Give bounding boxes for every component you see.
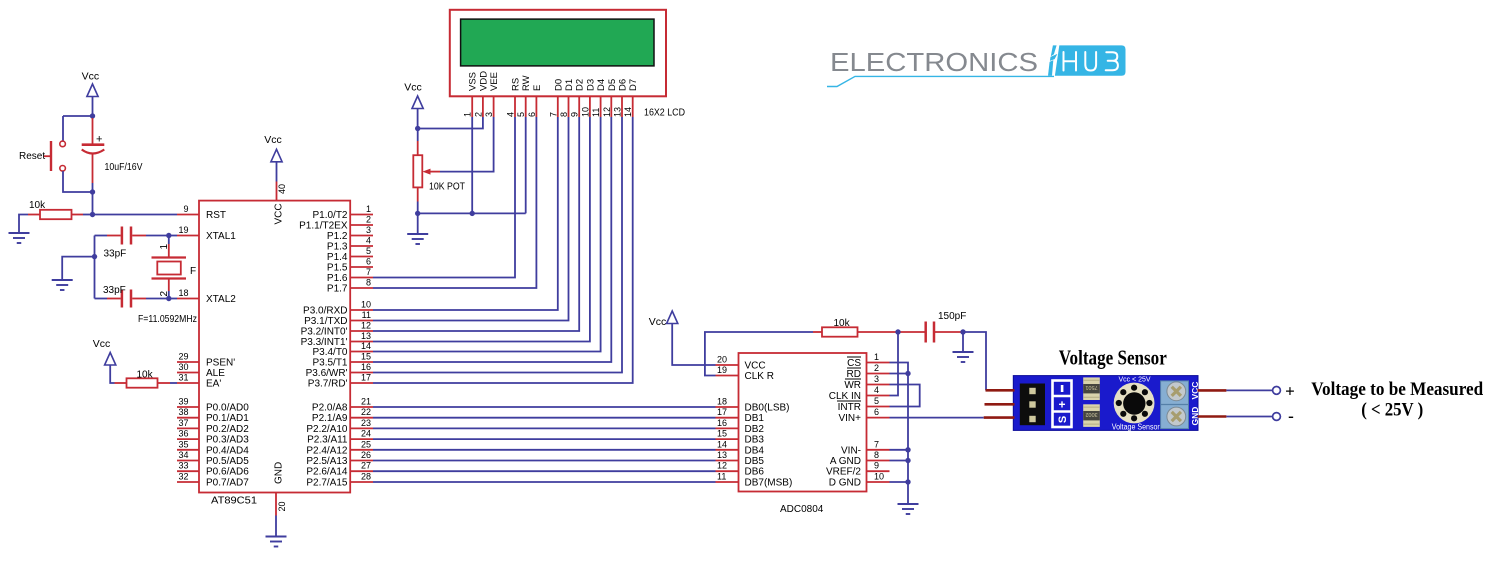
wire XTAL2 node to U1 [169,298,177,300]
svg-text:24: 24 [361,429,371,439]
svg-text:RST: RST [206,210,226,221]
U2 pin 15 DB3 stub [716,429,765,446]
svg-text:36: 36 [178,429,188,439]
svg-text:ELECTRONICS: ELECTRONICS [830,47,1038,77]
sensor right lead GND [1198,415,1227,418]
svg-text:10k: 10k [29,200,46,211]
ground (crystal capacitors) [52,280,73,290]
svg-text:14: 14 [623,107,633,117]
svg-text:18: 18 [178,288,188,298]
svg-text:F=11.0592MHz: F=11.0592MHz [138,314,197,325]
U1 pin 29 PSEN' stub [177,352,235,369]
svg-text:7501: 7501 [1085,384,1097,390]
svg-text:19: 19 [178,225,188,235]
svg-text:AT89C51: AT89C51 [211,496,257,507]
svg-text:13: 13 [613,107,623,117]
wire U2 A GND pin8 to rail [890,460,909,462]
svg-text:S: S [1057,416,1069,423]
svg-text:D1: D1 [564,79,575,91]
svg-text:21: 21 [361,397,371,407]
capacitor C1 10uF/16V electrolytic [82,118,105,183]
svg-text:18: 18 [717,397,727,407]
svg-text:3: 3 [484,112,494,117]
svg-text:A GND: A GND [830,456,861,467]
capacitor C4 150pF [926,322,963,343]
U1 pin 17 P3.7/RD' stub [308,373,373,390]
U1 pin 12 P3.2/INT0' stub [301,321,373,338]
svg-text:13: 13 [717,450,727,460]
svg-text:7: 7 [548,112,558,117]
push button Reset [44,141,65,171]
svg-text:6: 6 [527,112,537,117]
U1 pin 2 P1.1/T2EX stub [299,215,373,232]
U1 pin 10 P3.0/RXD stub [303,300,373,317]
svg-text:RS: RS [511,78,522,91]
svg-text:16: 16 [717,418,727,428]
svg-text:P3.1/TXD: P3.1/TXD [304,316,347,327]
wire D4 (LCD pin11) to U1 P3.4 [373,117,601,352]
svg-text:28: 28 [361,472,371,482]
wire C4 junction to sensor GND pin [963,332,986,390]
wire VDD (LCD pin2) to node C [418,117,483,129]
svg-text:33pF: 33pF [104,249,127,260]
svg-text:P3.0/RXD: P3.0/RXD [303,306,347,317]
wire C4 to ground [962,332,964,352]
svg-text:D6: D6 [618,79,629,91]
svg-text:3002: 3002 [1085,411,1097,417]
U1 pin 32 P0.7/AD7 stub [177,472,249,489]
U2 pin 18 DB0(LSB) stub [716,397,790,414]
LCD pin 7 D0 stub [548,79,564,117]
svg-text:9: 9 [183,204,188,214]
U1 pin 38 P0.1/AD1 stub [177,407,249,424]
U1 pin 23 P2.2/A10 stub [306,418,373,435]
svg-text:P2.7/A15: P2.7/A15 [306,478,348,489]
U2 pin 7 VIN- stub [841,439,890,456]
wire D0 (LCD pin7) to U1 P3.0 [373,117,558,310]
svg-text:DB7(MSB): DB7(MSB) [745,478,793,489]
svg-text:DB6: DB6 [745,467,765,478]
svg-text:P3.2/INT0': P3.2/INT0' [301,327,348,338]
svg-text:VREF/2: VREF/2 [826,467,861,478]
U1 pin 5 P1.4 stub [327,246,373,263]
svg-text:D5: D5 [607,79,618,91]
svg-text:19: 19 [717,365,727,375]
svg-text:14: 14 [717,439,727,449]
svg-text:Vcc: Vcc [404,81,422,93]
wire Vcc to node A [92,97,94,117]
wire reset button bottom to node B [63,171,93,192]
U1 pin 28 P2.7/A15 stub [306,472,373,489]
svg-text:P3.4/T0: P3.4/T0 [312,347,347,358]
U2 pin 12 DB6 stub [716,461,765,478]
svg-text:Voltage to be Measured: Voltage to be Measured [1311,379,1483,400]
svg-text:P1.2: P1.2 [327,231,348,242]
svg-text:CLK IN: CLK IN [829,391,861,402]
U1 VCC pin 40 stub [276,182,278,201]
svg-text:39: 39 [178,397,188,407]
svg-text:26: 26 [361,450,371,460]
LCD pin 8 D1 stub [559,79,575,117]
svg-text:VCC: VCC [745,361,766,372]
wire node A to reset button top [63,115,93,117]
ground (reset resistor) [9,233,30,243]
svg-text:Vcc: Vcc [93,338,111,350]
svg-text:8: 8 [366,278,371,288]
svg-text:8: 8 [559,112,569,117]
svg-text:35: 35 [178,439,188,449]
wire U2 D GND pin10 to rail [890,481,909,483]
svg-text:ADC0804: ADC0804 [780,504,824,515]
U2 pin 11 DB7(MSB) stub [716,472,793,489]
svg-text:12: 12 [602,107,612,117]
sensor 3-pin header (black) [1020,384,1045,426]
U1 pin 1 P1.0/T2 stub [312,204,373,221]
svg-text:P0.4/AD4: P0.4/AD4 [206,445,249,456]
svg-text:34: 34 [178,450,188,460]
svg-text:P2.1/A9: P2.1/A9 [312,413,348,424]
svg-text:P2.2/A10: P2.2/A10 [306,424,348,435]
wire RV1 bottom to ground [417,213,419,234]
wire U2 VIN+ pin6 to sensor S pin [890,417,984,419]
svg-text:30: 30 [178,362,188,372]
svg-text:Vcc: Vcc [264,134,282,146]
svg-text:P1.0/T2: P1.0/T2 [312,210,347,221]
svg-text:DB3: DB3 [745,435,765,446]
svg-text:D GND: D GND [829,478,861,489]
svg-text:11: 11 [717,472,726,482]
LCD pin 14 D7 stub [623,79,639,117]
svg-text:17: 17 [717,407,727,417]
wire D7 (LCD pin14) to U1 P3.7 [373,117,633,383]
ground (C4) [953,352,974,362]
svg-text:P0.1/AD1: P0.1/AD1 [206,413,249,424]
U2 pin 4 CLK IN stub [829,385,890,402]
node capacitor rail junction [92,254,97,259]
wire sensor VCC lead to + terminal [1226,389,1272,391]
LCD pin 2 VDD stub [473,71,489,117]
svg-text:Vcc: Vcc [82,71,100,83]
wire U2 CLK R pin 19 to resistor R4 [705,332,813,376]
svg-text:15: 15 [361,352,371,362]
wire U2 RD pin2 to rail [890,373,909,375]
svg-text:37: 37 [178,418,188,428]
LCD pin 6 E stub [527,85,543,117]
power symbol Vcc (reset circuit) [82,71,100,97]
wire E (LCD pin6) to U1 P1.7 [373,117,536,288]
svg-text:9: 9 [874,461,879,471]
node A junction [90,113,95,118]
svg-text:14: 14 [361,341,371,351]
sensor left lead S (signal) [984,416,1015,419]
svg-text:F: F [190,266,196,277]
op: U2 ADC0804 body [739,353,867,492]
wire U1 P2.7 to U2 DB7 [373,481,716,483]
svg-text:5: 5 [874,396,879,406]
wire D2 (LCD pin9) to U1 P3.2 [373,117,579,331]
U1 pin 8 P1.7 stub [327,278,373,295]
svg-text:P2.0/A8: P2.0/A8 [312,403,348,414]
svg-text:10: 10 [580,107,590,117]
wire Vcc to U2 VCC pin 20 [672,324,715,366]
svg-text:VDD: VDD [478,71,489,91]
wire D6 (LCD pin13) to U1 P3.6 [373,117,622,373]
wire D5 (LCD pin12) to U1 P3.5 [373,117,611,362]
capacitor C3 33pF [95,290,169,308]
svg-text:27: 27 [361,461,371,471]
logo HU3 letters [1064,52,1118,71]
svg-text:6: 6 [366,257,371,267]
svg-text:+: + [1058,397,1065,411]
U1 pin 35 P0.4/AD4 stub [177,439,249,456]
svg-text:15: 15 [717,429,727,439]
sensor trimmer potentiometer [1114,383,1155,424]
svg-text:10uF/16V: 10uF/16V [105,162,143,173]
potentiometer RV1 10K POT [413,129,440,214]
svg-text:4: 4 [366,236,371,246]
U1 pin 19 XTAL1 stub [177,225,236,242]
svg-text:VIN-: VIN- [841,445,861,456]
terminal - (input) [1273,413,1281,421]
LCD pin 11 D4 stub [591,79,607,117]
svg-text:31: 31 [178,373,188,383]
U2 pin 17 DB1 stub [716,407,765,424]
svg-text:16: 16 [361,362,371,372]
U1 pin 39 P0.0/AD0 stub [177,397,249,414]
U1 pin 11 P3.1/TXD stub [304,310,373,327]
U1 pin 26 P2.5/A13 stub [306,450,373,467]
svg-text:10k: 10k [834,318,851,329]
wire Vcc to R3 [110,365,114,383]
wire rail to ground [62,257,94,280]
wire sensor GND lead to - terminal [1226,416,1272,418]
U2 pin 13 DB5 stub [716,450,765,467]
resistor R2 10k (reset pulldown) [28,210,93,219]
U1 pin 36 P0.3/AD3 stub [177,429,249,446]
U2 pin 9 VREF/2 stub [826,461,890,478]
wire RW (LCD pin5) down to ground rail [525,117,527,213]
wire U1 P2.2 to U2 DB2 [373,427,716,429]
U2 pin 16 DB2 stub [716,418,765,435]
svg-text:20: 20 [277,501,287,511]
svg-text:P1.7: P1.7 [327,284,348,295]
svg-text:Reset: Reset [19,151,45,162]
svg-text:7: 7 [874,439,879,449]
svg-text:P1.3: P1.3 [327,242,348,253]
svg-text:DB5: DB5 [745,456,765,467]
svg-text:D2: D2 [575,79,586,91]
U1 pin 22 P2.1/A9 stub [312,407,373,424]
LCD screen (green) [461,19,654,66]
U1 pin 9 RST stub [177,204,226,221]
svg-text:D0: D0 [553,79,564,91]
ground (ADC rail) [898,504,919,514]
power symbol Vcc (ADC) [649,311,678,328]
svg-text:VIN+: VIN+ [838,413,861,424]
svg-text:1: 1 [463,112,473,117]
U1 pin 18 XTAL2 stub [177,288,236,305]
U2 pin 2 RD stub [847,363,890,380]
wire C1 bottom to node B [92,183,94,192]
svg-text:150pF: 150pF [938,311,966,322]
svg-text:P1.6: P1.6 [327,273,348,284]
LCD pin 12 D5 stub [602,79,618,117]
svg-text:2: 2 [366,215,371,225]
svg-text:+: + [96,134,102,146]
wire D1 (LCD pin8) to U1 P3.1 [373,117,569,321]
svg-text:P0.2/AD2: P0.2/AD2 [206,424,249,435]
svg-text:3: 3 [874,374,879,384]
svg-text:P2.4/A12: P2.4/A12 [306,445,348,456]
svg-text:XTAL2: XTAL2 [206,294,236,305]
svg-text:10k: 10k [137,370,154,381]
U2 pin 3 WR stub [844,374,889,391]
svg-text:P3.7/RD': P3.7/RD' [308,379,348,390]
power symbol Vcc (EA pin) [93,338,116,365]
U1 pin 3 P1.2 stub [327,225,373,242]
svg-text:2: 2 [874,363,879,373]
U1 pin 16 P3.6/WR' stub [306,362,373,379]
svg-text:2: 2 [473,112,483,117]
svg-text:6: 6 [874,407,879,417]
svg-text:2: 2 [159,291,170,297]
svg-text:8: 8 [874,450,879,460]
U2 pin 14 DB4 stub [716,439,765,456]
svg-text:3: 3 [366,225,371,235]
LCD module LCD1 body (16X2 LCD) [450,10,666,97]
svg-text:33: 33 [178,461,188,471]
svg-text:4: 4 [874,385,879,395]
svg-text:11: 11 [362,310,371,320]
wire VSS (LCD pin1) down to ground rail [471,117,473,213]
LCD pin 10 D3 stub [580,79,596,117]
svg-text:P1.1/T2EX: P1.1/T2EX [299,221,348,232]
svg-text:P0.3/AD3: P0.3/AD3 [206,435,249,446]
node RV1 bottom junction [415,211,420,216]
svg-text:P0.0/AD0: P0.0/AD0 [206,403,249,414]
sensor SMD resistor 7501 [1083,377,1100,400]
svg-text:+: + [1285,382,1295,401]
svg-text:( < 25V ): ( < 25V ) [1361,400,1423,421]
svg-text:10: 10 [874,472,884,482]
U2 pin 19 CLK R stub [716,365,774,382]
svg-text:XTAL1: XTAL1 [206,231,236,242]
U1 pin 30 ALE stub [177,362,225,379]
svg-text:DB0(LSB): DB0(LSB) [745,403,790,414]
svg-text:P0.6/AD6: P0.6/AD6 [206,467,249,478]
svg-text:CS: CS [847,358,861,369]
svg-text:4: 4 [506,112,516,117]
svg-text:10K POT: 10K POT [429,182,465,193]
svg-text:P1.5: P1.5 [327,263,348,274]
logo HUB blue box [1048,45,1126,75]
svg-text:11: 11 [591,108,601,117]
node C4 right junction [960,329,965,334]
node RD junction [905,371,910,376]
svg-text:33pF: 33pF [103,285,126,296]
U1 pin 33 P0.6/AD6 stub [177,461,249,478]
node XTAL2 junction [166,296,171,301]
LCD pin 13 D6 stub [613,79,629,117]
svg-text:PSEN': PSEN' [206,358,235,369]
svg-text:12: 12 [361,321,371,331]
svg-text:DB1: DB1 [745,413,765,424]
svg-text:1: 1 [366,204,371,214]
svg-text:DB2: DB2 [745,424,765,435]
svg-text:P3.6/WR': P3.6/WR' [306,368,348,379]
U2 pin 1 CS stub [847,352,890,369]
capacitor C2 33pF [95,227,169,245]
wire U1 P2.3 to U2 DB3 [373,438,716,440]
U1 pin 24 P2.3/A11 stub [307,429,373,446]
svg-text:38: 38 [178,407,188,417]
svg-text:P0.5/AD5: P0.5/AD5 [206,456,249,467]
terminal + (input) [1273,387,1281,395]
wire U1 P2.0 to U2 DB0 [373,406,716,408]
U1 pin 37 P0.2/AD2 stub [177,418,249,435]
svg-text:VEE: VEE [489,72,500,91]
svg-text:25: 25 [361,439,371,449]
svg-text:17: 17 [361,373,371,383]
LCD pin 3 VEE stub [484,72,500,117]
sensor screw terminal block [1161,381,1189,429]
svg-text:P0.7/AD7: P0.7/AD7 [206,478,249,489]
svg-text:7: 7 [366,267,371,277]
svg-text:16X2 LCD: 16X2 LCD [644,108,685,119]
svg-text:RW: RW [521,75,532,91]
svg-text:40: 40 [277,184,287,194]
svg-text:INTR: INTR [838,402,861,413]
sensor right lead VCC [1198,389,1227,392]
svg-text:9: 9 [570,112,580,117]
svg-text:5: 5 [516,112,526,117]
wire RST node to U1 RST pin [93,214,178,216]
svg-text:1: 1 [159,244,170,250]
wire U2 CS pin1 to vertical rail [890,363,909,505]
ground (LCD/pot) [407,234,428,244]
wire U2 VIN- pin7 to rail [890,449,909,451]
U1 pin 14 P3.4/T0 stub [312,341,373,358]
svg-text:EA': EA' [206,379,221,390]
svg-text:Voltage Sensor: Voltage Sensor [1112,422,1160,431]
svg-text:RD: RD [847,369,861,380]
wire U1 P2.1 to U2 DB1 [373,417,716,419]
svg-text:ALE: ALE [206,368,225,379]
svg-text:P2.3/A11: P2.3/A11 [307,435,348,446]
power symbol Vcc (U1 pin 40) [264,134,282,162]
svg-text:20: 20 [717,355,727,365]
U1 GND pin 20 stub [275,493,277,516]
node A GND junction [905,458,910,463]
wire XTAL1 node [169,235,177,237]
U1 pin 7 P1.6 stub [327,267,373,284]
svg-text:32: 32 [178,472,188,482]
wire U1 pin 20 to ground [275,516,277,537]
node RST junction [90,212,95,217]
wire U1 P2.6 to U2 DB6 [373,470,716,472]
svg-text:WR: WR [844,380,861,391]
svg-text:GND: GND [274,462,285,484]
wire capacitor rail [94,236,96,299]
resistor R3 10k (EA) [115,378,178,387]
sensor left lead - (to ground) [986,389,1015,392]
svg-text:E: E [532,85,543,91]
svg-text:P2.5/A13: P2.5/A13 [306,456,348,467]
node XTAL1 junction [166,233,171,238]
svg-text:D3: D3 [585,79,596,91]
wire VEE (LCD pin3) to RV1 wiper [440,117,494,172]
LCD pin 5 RW stub [516,75,532,117]
